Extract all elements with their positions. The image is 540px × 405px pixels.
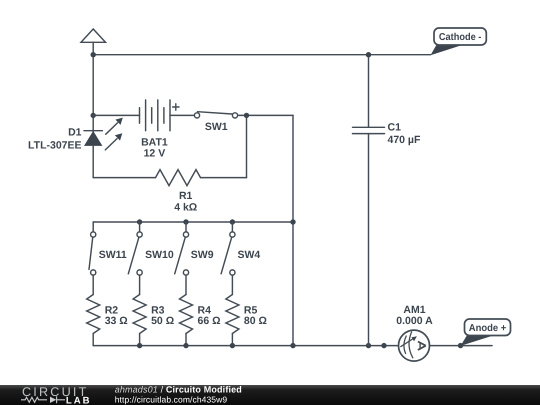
switch SW11 xyxy=(89,222,96,295)
svg-text:http://circuitlab.com/ch435w9: http://circuitlab.com/ch435w9 xyxy=(115,395,228,405)
svg-text:SW10: SW10 xyxy=(145,249,174,261)
node junctions on bottom bus xyxy=(137,343,387,348)
logo CIRCUIT xyxy=(22,385,88,399)
label SW1 xyxy=(205,121,228,133)
svg-text:SW1: SW1 xyxy=(205,121,228,133)
svg-text:66 Ω: 66 Ω xyxy=(198,315,221,327)
flag Anode + xyxy=(461,319,511,346)
label R3 xyxy=(151,304,174,327)
url text xyxy=(115,395,228,405)
wire left vertical xyxy=(92,42,94,131)
resistor R1 xyxy=(156,170,201,186)
node junction anode attach xyxy=(458,343,463,348)
svg-text:80 Ω: 80 Ω xyxy=(244,315,267,327)
svg-text:SW4: SW4 xyxy=(238,249,261,261)
svg-text:Anode +: Anode + xyxy=(469,323,507,334)
flag Cathode - xyxy=(431,28,487,55)
wire battery left xyxy=(93,114,139,116)
footer bar xyxy=(0,385,540,405)
svg-text:R1: R1 xyxy=(179,190,193,202)
label SW9 xyxy=(191,249,214,261)
wire ammeter to anode stub xyxy=(430,345,493,347)
label R4 xyxy=(198,304,221,327)
wire R1 to right vertical xyxy=(201,115,247,177)
battery BAT1 xyxy=(140,100,180,131)
resistor R2 xyxy=(87,295,100,346)
node junction C1 top xyxy=(366,52,371,57)
svg-text:0.000 A: 0.000 A xyxy=(396,315,433,327)
node junction after SW1 xyxy=(244,113,249,118)
wire top rail xyxy=(93,54,430,56)
label SW4 xyxy=(238,249,261,261)
wire LED to bottom corner xyxy=(92,146,94,178)
logo squiggle xyxy=(21,396,65,403)
label R5 xyxy=(244,304,267,327)
label C1 xyxy=(388,121,421,146)
label SW11 xyxy=(99,249,127,261)
LED D1 xyxy=(84,118,123,150)
label AM1 xyxy=(396,304,433,327)
wire SW1 to right xyxy=(238,114,293,116)
svg-text:ahmads01 / Circuito Modified: ahmads01 / Circuito Modified xyxy=(115,384,242,394)
svg-text:AM1: AM1 xyxy=(403,304,425,316)
svg-text:4 kΩ: 4 kΩ xyxy=(174,201,197,213)
svg-text:12 V: 12 V xyxy=(144,148,166,160)
title text xyxy=(115,384,242,394)
resistor R4 xyxy=(180,295,193,346)
label BAT1 xyxy=(141,137,168,160)
wire bottom bus xyxy=(93,345,398,347)
switch SW10 xyxy=(128,222,142,295)
svg-text:D1: D1 xyxy=(68,127,82,139)
node junctions on top bus xyxy=(137,219,296,224)
svg-text:Cathode -: Cathode - xyxy=(439,32,482,43)
node flag (up triangle) xyxy=(81,29,106,42)
resistor R5 xyxy=(226,295,239,346)
logo LAB xyxy=(66,395,92,405)
svg-text:SW11: SW11 xyxy=(99,249,127,261)
svg-text:LAB: LAB xyxy=(66,395,92,405)
capacitor C1 xyxy=(353,55,385,346)
resistor R3 xyxy=(133,295,146,346)
switch SW4 xyxy=(221,222,235,295)
node junction battery row xyxy=(91,113,96,118)
label SW10 xyxy=(145,249,174,261)
ammeter AM1 xyxy=(399,330,430,361)
svg-text:SW9: SW9 xyxy=(191,249,214,261)
wire top bus of switch bank xyxy=(93,221,293,223)
svg-text:50 Ω: 50 Ω xyxy=(151,315,174,327)
label R1 xyxy=(174,190,197,213)
svg-text:470 µF: 470 µF xyxy=(388,134,421,146)
switch SW1 xyxy=(194,112,237,118)
wire battery to SW1 xyxy=(170,114,194,116)
svg-text:LTL-307EE: LTL-307EE xyxy=(28,140,81,152)
switch SW9 xyxy=(175,222,189,295)
label R2 xyxy=(105,304,128,327)
svg-text:33 Ω: 33 Ω xyxy=(105,315,128,327)
wire bottom-left horizontal xyxy=(93,177,155,179)
wire right vertical x=293 xyxy=(292,115,294,345)
node junction top-left xyxy=(91,52,96,57)
label D1 xyxy=(28,127,82,152)
svg-text:C1: C1 xyxy=(388,121,402,133)
